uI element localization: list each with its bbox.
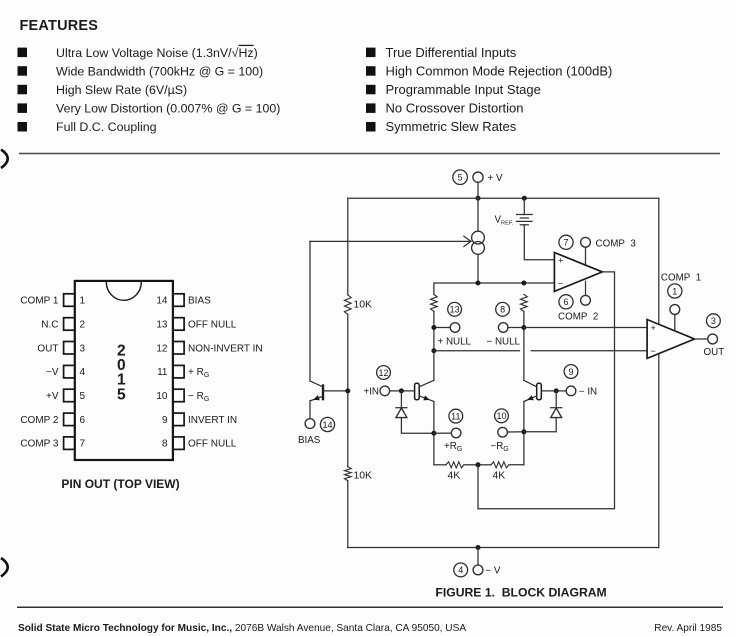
feature bullet R2 <box>366 66 376 76</box>
svg-text:+IN: +IN <box>363 387 379 398</box>
svg-text:N.C: N.C <box>41 320 58 331</box>
feature bullet L3 <box>18 85 28 95</box>
svg-text:NON-INVERT IN: NON-INVERT IN <box>188 343 263 354</box>
pin 4 box <box>64 365 75 378</box>
svg-text:11: 11 <box>157 367 168 378</box>
svg-text:+: + <box>558 256 563 266</box>
transistor Q3 bias <box>322 384 324 400</box>
svg-text:13: 13 <box>156 320 168 331</box>
svg-text:High Slew Rate (6V/µS): High Slew Rate (6V/µS) <box>56 83 187 97</box>
pin 12 box <box>173 342 184 355</box>
transistor Q2 -IN <box>537 383 542 400</box>
resistor -NULL collector load <box>521 294 528 311</box>
svg-text:Solid State Micro Technology f: Solid State Micro Technology for Music, … <box>18 623 466 634</box>
wire +NULL node to A2 bottom input (hops -NULL line) <box>431 348 436 353</box>
svg-text:10K: 10K <box>354 471 373 482</box>
terminal COMP 3 pin 7 <box>585 247 587 264</box>
terminal -IN pin 9 <box>566 386 576 396</box>
svg-text:14: 14 <box>322 420 332 430</box>
scan mark left parenthesis top <box>1 150 8 169</box>
svg-text:12: 12 <box>378 368 388 378</box>
svg-text:Wide Bandwidth (700kHz @ G = 1: Wide Bandwidth (700kHz @ G = 100) <box>56 64 263 78</box>
junction -V rail <box>476 545 481 550</box>
svg-text:4: 4 <box>458 565 463 575</box>
footer rule <box>17 606 723 608</box>
svg-text:High Common Mode Rejection (10: High Common Mode Rejection (100dB) <box>386 63 613 78</box>
terminal -Rg pin 10 <box>495 409 509 423</box>
svg-text:6: 6 <box>80 415 86 426</box>
feature bullet R4 <box>366 103 376 113</box>
wire resistor top rail to A1 - input <box>434 283 555 294</box>
svg-text:Symmetric Slew Rates: Symmetric Slew Rates <box>386 119 517 134</box>
terminal COMP 2 pin 6 <box>585 281 587 295</box>
wire bias arrow into current source <box>310 240 471 242</box>
scan mark left parenthesis bottom <box>1 558 8 577</box>
pin 1 box <box>64 294 75 307</box>
svg-text:True Differential Inputs: True Differential Inputs <box>386 45 517 60</box>
pin 2 box <box>64 318 75 331</box>
svg-text:8: 8 <box>162 439 168 450</box>
junction +V rail <box>476 196 481 201</box>
svg-text:BIAS: BIAS <box>188 296 211 307</box>
svg-text:1: 1 <box>672 286 677 296</box>
svg-text:13: 13 <box>450 305 460 315</box>
svg-text:− NULL: − NULL <box>487 337 521 348</box>
svg-text:PIN OUT (TOP VIEW): PIN OUT (TOP VIEW) <box>61 477 179 491</box>
svg-text:10: 10 <box>156 391 168 402</box>
svg-text:FIGURE 1. BLOCK DIAGRAM: FIGURE 1. BLOCK DIAGRAM <box>435 586 606 600</box>
wire +V terminal to top rail <box>477 182 479 198</box>
svg-text:OUT: OUT <box>704 347 725 358</box>
feature bullet L2 <box>18 66 28 76</box>
terminal +IN pin 12 <box>380 386 390 396</box>
terminal +Rg pin 11 <box>449 409 463 423</box>
wire current source to resistor rail <box>477 254 479 283</box>
terminal OUT pin 3 <box>708 334 718 344</box>
op-amp A2 output stage <box>647 320 694 359</box>
svg-text:4: 4 <box>80 367 86 378</box>
transistor Q1 +IN <box>415 383 420 400</box>
svg-text:4K: 4K <box>493 471 506 482</box>
svg-text:− IN: − IN <box>579 387 597 398</box>
wire resistor to +NULL node <box>433 311 435 380</box>
junction current source rail <box>476 281 481 286</box>
svg-text:− V: − V <box>485 566 500 577</box>
svg-text:COMP 1: COMP 1 <box>661 272 701 283</box>
wire A2 output <box>695 338 708 340</box>
wire top rail to Vref battery <box>523 198 525 214</box>
feature bullet L4 <box>18 103 28 113</box>
svg-text:1: 1 <box>80 296 86 307</box>
svg-text:5: 5 <box>80 391 86 402</box>
pin 11 box <box>173 365 184 378</box>
svg-text:Rev. April 1985: Rev. April 1985 <box>654 623 722 634</box>
wire A1 output feedback loop <box>478 272 615 509</box>
svg-text:OFF NULL: OFF NULL <box>188 320 237 331</box>
svg-text:COMP 2: COMP 2 <box>558 311 598 322</box>
pin 3 box <box>64 342 75 355</box>
svg-text:−: − <box>651 346 656 356</box>
terminal BIAS pin 14 <box>305 419 315 429</box>
svg-text:8: 8 <box>500 305 505 315</box>
resistor 10K lower <box>344 467 351 481</box>
svg-text:5: 5 <box>458 173 463 183</box>
svg-text:11: 11 <box>451 411 460 421</box>
terminal +NULL pin 13 <box>448 302 462 316</box>
svg-text:10K: 10K <box>354 300 373 311</box>
package notch <box>106 282 141 300</box>
outer box top rail +V <box>348 197 659 199</box>
pin 6 box <box>64 413 75 426</box>
op-amp A1 gain stage <box>554 253 602 292</box>
pin 13 box <box>173 318 184 331</box>
outer box bottom rail -V <box>348 547 659 549</box>
svg-text:COMP 3: COMP 3 <box>596 239 637 250</box>
battery Vref <box>517 214 533 216</box>
wire -NULL node to A2 top input <box>524 327 647 329</box>
terminal -NULL pin 8 <box>496 302 510 316</box>
svg-text:+: + <box>651 323 656 333</box>
wire Vref battery to A1 + input <box>524 225 554 260</box>
feature bullet R5 <box>366 122 376 132</box>
svg-text:−V: −V <box>46 367 59 378</box>
svg-text:Full D.C. Coupling: Full D.C. Coupling <box>56 120 157 134</box>
svg-text:COMP 3: COMP 3 <box>20 439 59 450</box>
svg-text:9: 9 <box>162 415 168 426</box>
feature bullet L1 <box>18 48 28 58</box>
svg-text:COMP 2: COMP 2 <box>20 415 59 426</box>
svg-text:2: 2 <box>80 320 86 331</box>
svg-text:4K: 4K <box>448 471 461 482</box>
pin 8 box <box>173 437 184 450</box>
pin 7 box <box>64 437 75 450</box>
wire center tap to feedback row <box>477 465 479 509</box>
current source I1 <box>472 231 485 244</box>
junction 4K center tap <box>476 462 481 467</box>
feature bullet L5 <box>18 122 28 132</box>
svg-text:No Crossover Distortion: No Crossover Distortion <box>386 101 524 116</box>
svg-text:BIAS: BIAS <box>298 435 321 446</box>
horizontal rule under features <box>19 153 720 155</box>
resistor 4K left <box>434 464 446 466</box>
resistor +NULL collector load <box>431 294 438 311</box>
svg-text:3: 3 <box>711 316 716 326</box>
IC package body 2015 DIP-14 <box>75 281 173 460</box>
diode D2 <box>555 391 557 408</box>
resistor 10K upper <box>344 295 351 315</box>
svg-text:+ NULL: + NULL <box>438 337 472 348</box>
svg-text:−: − <box>558 279 563 289</box>
wire Q1 emitter to +Rg node <box>433 402 435 465</box>
svg-text:5: 5 <box>117 386 126 403</box>
feature bullet R1 <box>366 48 376 58</box>
junction Vref top rail <box>522 196 527 201</box>
svg-text:6: 6 <box>563 297 568 307</box>
svg-text:+ V: + V <box>488 173 503 184</box>
svg-text:Very Low Distortion (0.007% @: Very Low Distortion (0.007% @ G = 100) <box>56 102 280 116</box>
pin 5 box <box>64 389 75 402</box>
pin 10 box <box>173 389 184 402</box>
svg-text:Ultra Low Voltage Noise (1.3nV: Ultra Low Voltage Noise (1.3nV/√Hz) <box>56 46 258 60</box>
outer box left edge with bias resistors <box>347 198 349 295</box>
svg-text:COMP 1: COMP 1 <box>20 296 59 307</box>
svg-text:OUT: OUT <box>37 343 58 354</box>
svg-text:14: 14 <box>156 296 168 307</box>
diode D1 <box>400 391 402 408</box>
feature bullet R3 <box>366 85 376 95</box>
outer box right edge <box>658 198 660 547</box>
wire resistor to -NULL node <box>523 311 525 380</box>
wire top rail to current source <box>477 198 479 231</box>
svg-text:10: 10 <box>496 411 506 421</box>
svg-text:Programmable Input Stage: Programmable Input Stage <box>386 82 541 97</box>
terminal -V pin 4 <box>477 548 479 566</box>
resistor 4K right <box>509 464 524 466</box>
pin 14 box <box>173 294 184 307</box>
svg-text:FEATURES: FEATURES <box>20 18 99 34</box>
svg-text:7: 7 <box>80 439 86 450</box>
pin 9 box <box>173 413 184 426</box>
junction -NULL resistor rail <box>521 281 526 286</box>
svg-text:3: 3 <box>80 343 86 354</box>
svg-text:7: 7 <box>563 238 568 248</box>
svg-text:+V: +V <box>46 391 59 402</box>
node +V terminal pin 5 <box>453 170 468 185</box>
wire Q2 emitter to -Rg node <box>523 402 525 465</box>
svg-text:12: 12 <box>156 343 168 354</box>
svg-text:INVERT IN: INVERT IN <box>188 415 237 426</box>
svg-text:OFF NULL: OFF NULL <box>188 439 237 450</box>
svg-text:9: 9 <box>568 367 573 377</box>
